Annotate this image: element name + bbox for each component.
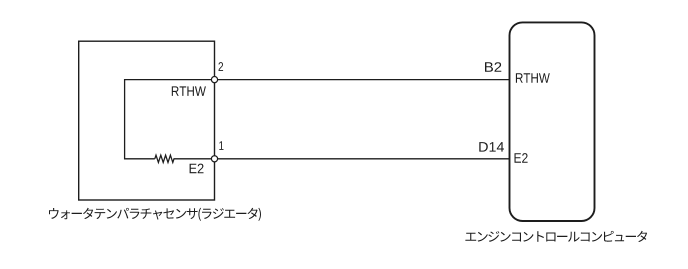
label RTHW (sensor side)	[172, 86, 206, 96]
wire E2 (terminal 1 to ECU pin D14)	[215, 158, 511, 160]
sensor outer box (water temp sensor)	[79, 41, 215, 200]
caption: engine control computer	[465, 231, 647, 242]
terminal 2 circle	[211, 77, 217, 83]
caption: water temperature sensor (radiator)	[49, 208, 261, 221]
label RTHW (ECU side)	[516, 73, 550, 83]
wire RTHW (terminal 2 to ECU pin B2)	[215, 79, 511, 81]
sensor internal wire loop	[125, 80, 215, 159]
resistor (thermistor element)	[155, 155, 215, 162]
ECU connector pin D14	[479, 142, 504, 152]
ECU connector pin B2	[485, 62, 501, 72]
label E2 (ECU side)	[515, 153, 528, 163]
label E2 (sensor side)	[190, 164, 204, 174]
terminal 1 circle	[211, 156, 217, 162]
pin number 1	[219, 141, 223, 150]
ECU box (engine control computer)	[510, 22, 595, 221]
pin number 2	[219, 62, 224, 71]
